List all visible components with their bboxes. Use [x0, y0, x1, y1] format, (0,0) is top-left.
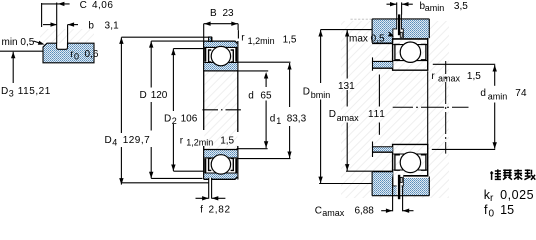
svg-text:D: D	[140, 90, 147, 101]
housing lower left shoulder	[372, 172, 393, 196]
svg-text:120: 120	[151, 90, 168, 101]
svg-text:1,5: 1,5	[467, 71, 481, 82]
svg-text:3,5: 3,5	[454, 1, 468, 12]
right bearing upper bore edge	[392, 69, 428, 71]
right bearing OD top edge	[392, 38, 428, 40]
svg-text:2,82: 2,82	[209, 205, 231, 216]
Camax right arrow	[403, 210, 414, 212]
lower bore edge	[204, 149, 238, 151]
d bottom extension	[237, 148, 268, 150]
svg-text:0: 0	[489, 208, 495, 219]
groove right wall extension line	[67, 25, 69, 44]
shaft end face line	[427, 71, 429, 149]
bamin left arrow	[387, 3, 397, 5]
svg-text:129,7: 129,7	[123, 135, 150, 146]
right upper ball	[400, 42, 420, 62]
svg-text:C: C	[315, 205, 322, 216]
lower cage left bracket	[209, 158, 212, 170]
watermark patch shaft	[428, 71, 445, 149]
svg-text:2: 2	[172, 116, 177, 126]
svg-text:106: 106	[181, 114, 198, 125]
housing lower recess slot white	[393, 175, 403, 186]
svg-text:1: 1	[276, 116, 281, 126]
svg-text:1,2min: 1,2min	[248, 36, 275, 46]
right lower ball	[400, 152, 420, 172]
svg-text:1,2min: 1,2min	[186, 137, 213, 147]
lower right shield	[235, 159, 237, 173]
lower ball	[211, 155, 230, 174]
svg-text:74: 74	[515, 88, 527, 99]
svg-text:amin: amin	[488, 91, 508, 101]
block face extension line	[41, 3, 43, 27]
svg-text:0,025: 0,025	[500, 188, 534, 202]
svg-text:1,5: 1,5	[220, 135, 234, 146]
upper cage right bracket	[231, 50, 234, 62]
right bearing lower bore edge	[392, 143, 428, 145]
lower inner shoulder line	[204, 157, 237, 159]
Dbmin top corner line	[321, 29, 373, 31]
upper OD edge	[204, 41, 237, 43]
svg-text:amin: amin	[425, 3, 445, 13]
right bearing right face	[427, 38, 429, 71]
upper inner shoulder line	[204, 62, 237, 64]
d1 dimension line	[289, 63, 291, 107]
svg-text:0: 0	[74, 52, 79, 62]
svg-text:4: 4	[112, 138, 117, 148]
d1 top extension	[236, 61, 290, 63]
svg-text:83,3: 83,3	[287, 114, 307, 125]
Dbmin bottom corner line	[319, 183, 372, 185]
watermark patch above left detail block	[40, 29, 94, 43]
d1 bottom extension	[236, 158, 290, 160]
damin top extension	[433, 63, 495, 65]
d top extension	[237, 70, 269, 72]
dimension b right arrow	[68, 24, 78, 26]
r corner tick	[237, 30, 239, 38]
f right arrow	[212, 197, 226, 199]
svg-text:1,5: 1,5	[283, 35, 297, 46]
right upper cage brackets	[395, 44, 400, 59]
damin bottom extension	[432, 148, 495, 150]
svg-text:0,6: 0,6	[85, 49, 99, 60]
housing upper top band	[372, 19, 429, 29]
housing lower right block	[401, 178, 429, 196]
svg-text:65: 65	[260, 90, 272, 101]
D3 extension line	[0, 50, 43, 52]
right bearing OD bottom edge	[392, 175, 428, 177]
svg-text:111: 111	[368, 109, 385, 120]
upper outer ring band	[204, 41, 237, 47]
svg-text:3,1: 3,1	[105, 21, 120, 32]
svg-text:f: f	[200, 205, 203, 216]
svg-text:b: b	[88, 21, 94, 32]
B right extension	[237, 24, 239, 30]
dimension C line	[42, 3, 70, 5]
svg-text:D: D	[105, 135, 112, 146]
svg-text:6,88: 6,88	[355, 205, 375, 216]
lower inner ring band	[204, 150, 237, 158]
Damax lower extension	[346, 170, 372, 172]
upper inner ring band	[204, 63, 237, 71]
right bearing left face	[392, 38, 394, 71]
right bearing upper outer shoulder	[393, 44, 427, 46]
damin dimension line	[494, 65, 496, 86]
svg-text:amax: amax	[322, 208, 345, 218]
131 dimension line	[346, 30, 348, 79]
svg-text:min 0,5: min 0,5	[2, 37, 35, 48]
watermark patch middle bore	[204, 72, 237, 149]
svg-text:D: D	[329, 109, 336, 120]
d dimension line	[265, 75, 267, 87]
upper right shield	[235, 48, 237, 62]
housing shoulder bottom edge	[372, 42, 393, 44]
D dimension line	[150, 41, 152, 87]
D top extension	[151, 40, 204, 42]
svg-text:d: d	[480, 88, 486, 99]
lower left shield	[205, 159, 207, 173]
svg-text:15: 15	[500, 203, 514, 217]
svg-text:D: D	[303, 86, 310, 97]
svg-text:amax: amax	[337, 113, 360, 123]
leader min 0,5	[34, 41, 43, 44]
svg-text:d: d	[270, 114, 276, 125]
svg-text:23: 23	[223, 8, 235, 19]
D bottom extension	[151, 177, 202, 179]
dimension b left arrow	[43, 24, 57, 26]
svg-text:3: 3	[9, 88, 14, 98]
watermark patch right view main	[341, 54, 449, 198]
right bearing lower outer shoulder	[393, 169, 427, 171]
svg-text:4,06: 4,06	[92, 0, 113, 11]
lower cage right bracket	[231, 158, 234, 170]
svg-text:131: 131	[338, 81, 355, 92]
bearing right face line	[237, 41, 239, 132]
D2 dimension line	[172, 49, 174, 111]
svg-text:B: B	[210, 8, 217, 19]
housing lower bottom band	[372, 186, 429, 196]
watermark patch right view upper	[341, 21, 449, 54]
D2 bottom extension	[173, 170, 203, 172]
upper left shield	[205, 48, 207, 62]
shaft abutment upper	[373, 62, 393, 68]
housing top edge gray lead-in	[351, 18, 373, 20]
lower outer ring band	[204, 173, 237, 179]
snap ring groove notch upper	[209, 37, 212, 41]
detail ring block	[43, 43, 94, 63]
Camax extension lines	[392, 177, 394, 211]
D4 bottom extension	[121, 182, 208, 184]
housing upper left shoulder	[372, 19, 393, 43]
svg-text:bmin: bmin	[311, 90, 331, 100]
housing lower shoulder top edge	[372, 170, 393, 172]
shaft break dash-dot line	[445, 61, 447, 154]
svg-text:115,21: 115,21	[18, 86, 51, 97]
svg-text:C: C	[80, 0, 87, 11]
shaft abutment lower	[373, 147, 393, 152]
housing upper recess slot white	[393, 29, 403, 40]
Dbmin dimension line	[320, 30, 322, 83]
housing upper outline	[372, 18, 429, 20]
groove left wall extension line	[56, 3, 58, 44]
right bearing upper inner shoulder	[393, 60, 427, 62]
housing upper right block	[401, 19, 429, 38]
D2 top extension	[173, 48, 204, 50]
Camax left arrow	[381, 210, 392, 212]
recess outline upper	[393, 29, 403, 40]
svg-text:amax: amax	[438, 73, 461, 83]
right view centerline	[393, 106, 469, 108]
right bearing lower inner shoulder	[393, 153, 427, 155]
right lower cage brackets	[395, 155, 400, 170]
leader max 0,5	[389, 32, 393, 36]
lower OD edge	[204, 177, 237, 179]
recess outline lower	[393, 175, 403, 186]
bamin extension lines	[396, 2, 398, 14]
f left arrow	[196, 197, 209, 199]
dimension C arrowhead	[58, 2, 65, 6]
label calculation factors CJK	[490, 169, 535, 180]
svg-text:d: d	[248, 90, 254, 101]
recess slot wall lines upper	[396, 15, 398, 30]
D4 dimension line	[120, 37, 122, 133]
upper cage left bracket	[209, 50, 212, 62]
Damax dimension line	[378, 75, 380, 107]
svg-text:max 0,5: max 0,5	[349, 33, 385, 44]
upper outer shoulder line	[204, 46, 237, 48]
bearing left face line	[203, 41, 205, 130]
dimension B line	[204, 23, 238, 25]
D4 top extension	[121, 36, 211, 38]
snap ring lower	[398, 175, 400, 199]
D3 dimension line with up arrow	[12, 52, 14, 83]
svg-text:D: D	[164, 114, 171, 125]
upper ball	[211, 46, 230, 65]
lower outer shoulder line	[204, 172, 237, 174]
bamin right arrow	[402, 3, 413, 5]
upper bore edge	[204, 70, 238, 72]
svg-text:D: D	[1, 86, 8, 97]
svg-text:f: f	[484, 203, 488, 217]
middle view centerline	[202, 109, 241, 111]
snap ring upper	[398, 14, 400, 35]
housing lower outline	[372, 195, 429, 197]
snap ring groove slot lower	[209, 178, 211, 198]
B left extension	[203, 24, 205, 41]
